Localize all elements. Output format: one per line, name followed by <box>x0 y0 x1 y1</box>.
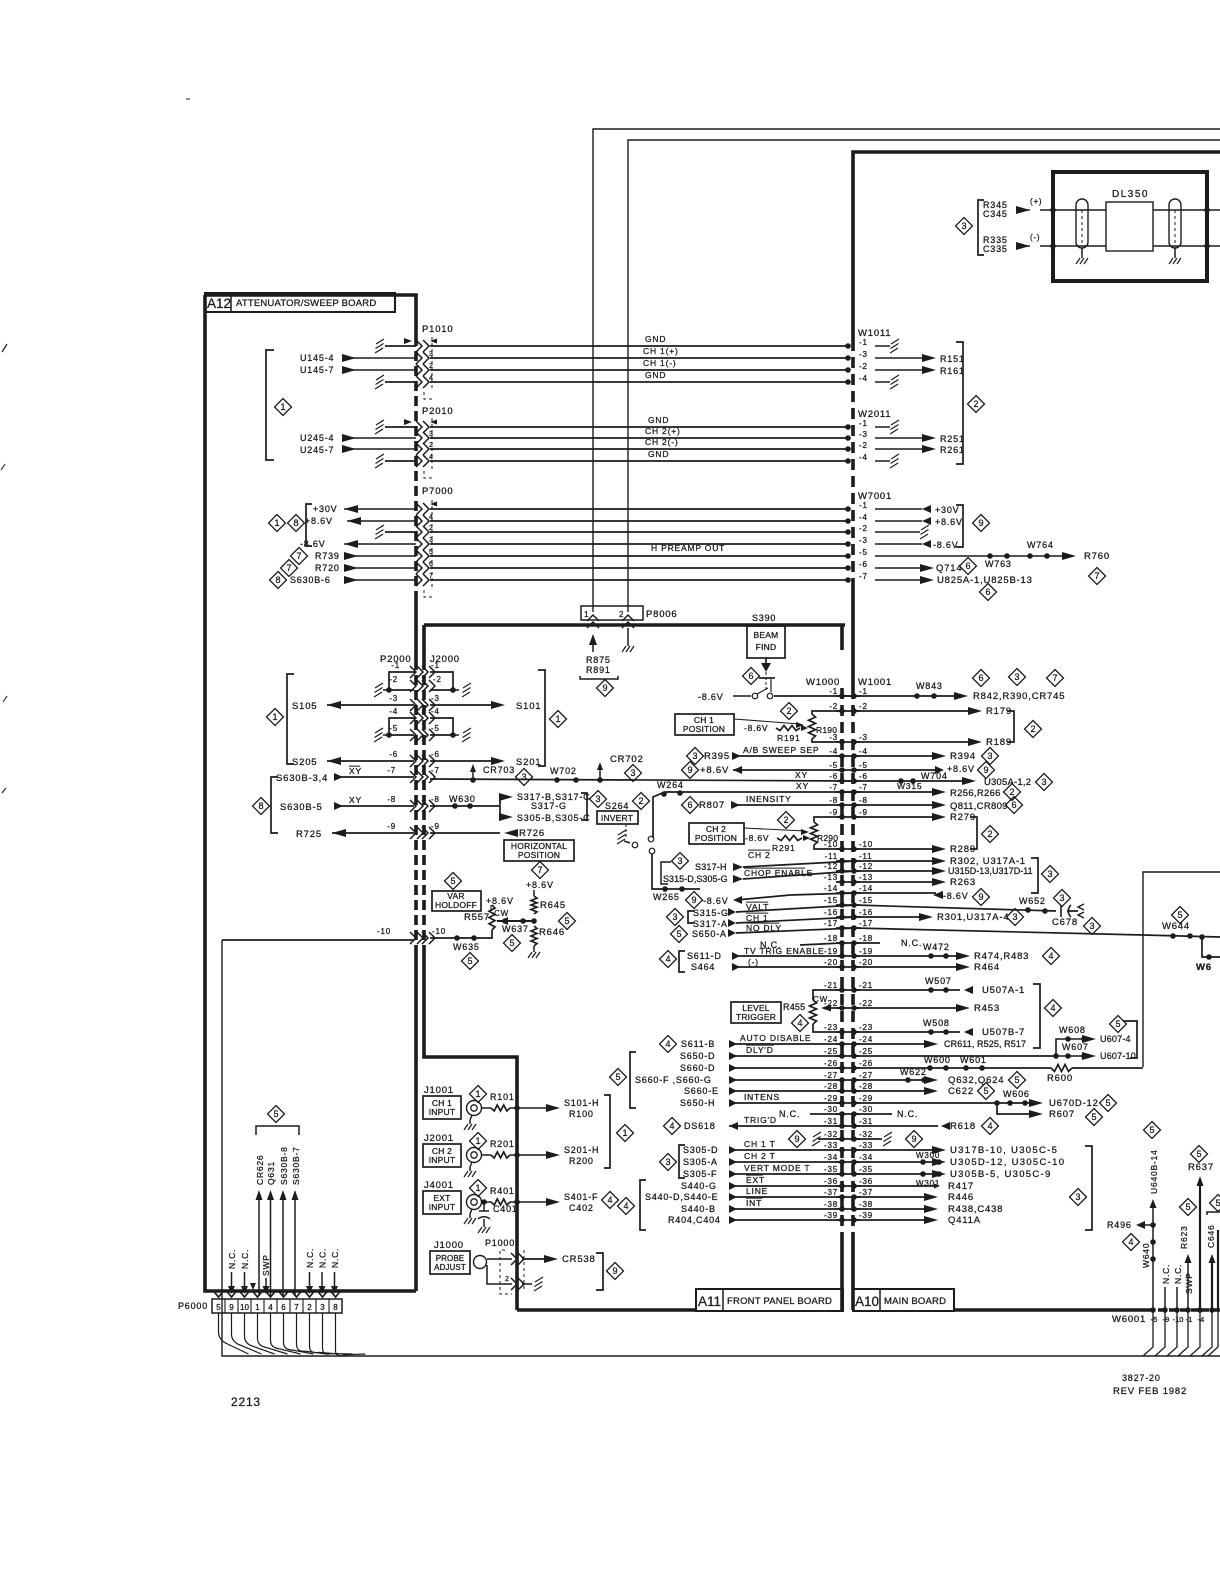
svg-text:S630B-3,4: S630B-3,4 <box>276 773 328 784</box>
wire R807 to bus -8 INTENSITY <box>682 797 699 814</box>
svg-text:CHOP ENABLE: CHOP ENABLE <box>744 868 813 878</box>
wire -8.6V <box>875 543 922 545</box>
svg-text:-11: -11 <box>859 852 872 861</box>
ground bus -32 right <box>854 1138 882 1140</box>
svg-text:3: 3 <box>1089 921 1094 931</box>
svg-text:S660-E: S660-E <box>684 1086 719 1096</box>
svg-text:10: 10 <box>240 1303 249 1312</box>
reference diamond 3 <box>1054 890 1071 907</box>
wire H preamp out to R760 via W763 W764 <box>875 555 1066 557</box>
svg-text:-21: -21 <box>859 981 873 990</box>
svg-text:9: 9 <box>602 683 607 693</box>
A10 bottom edge <box>954 1308 1147 1312</box>
wire +8.6V <box>875 520 922 522</box>
svg-text:R101: R101 <box>490 1092 515 1102</box>
svg-text:+8.6V: +8.6V <box>947 764 975 774</box>
svg-text:-4: -4 <box>859 513 868 522</box>
reference diamond 8 <box>253 798 270 815</box>
svg-text:R190: R190 <box>816 725 837 735</box>
svg-text:W300: W300 <box>916 1151 940 1160</box>
svg-text:R646: R646 <box>539 927 565 938</box>
svg-text:2: 2 <box>1030 724 1035 734</box>
svg-text:DS618: DS618 <box>684 1121 716 1131</box>
bottom border bundle wire <box>222 940 1220 1356</box>
svg-text:+8.6V: +8.6V <box>700 765 729 776</box>
svg-text:U305B-5, U305C-9: U305B-5, U305C-9 <box>950 1169 1052 1180</box>
wire bus -17 long to W644 right board <box>854 928 1143 935</box>
svg-text:-20: -20 <box>859 958 873 967</box>
svg-text:-8: -8 <box>387 795 396 804</box>
svg-text:-8.6V: -8.6V <box>698 692 724 702</box>
right board boundary (A14) <box>1143 872 1220 1067</box>
wire W608 to U607-4 <box>1056 1039 1086 1056</box>
svg-text:XY: XY <box>349 766 362 776</box>
svg-text:ADJUST: ADJUST <box>434 1263 466 1272</box>
svg-text:S315-D,S305-G: S315-D,S305-G <box>663 874 728 884</box>
svg-text:S264: S264 <box>605 801 629 811</box>
svg-text:-19: -19 <box>859 947 873 956</box>
reference diamond 4 <box>602 1192 619 1209</box>
svg-text:5: 5 <box>1215 1198 1220 1208</box>
svg-text:-38: -38 <box>824 1200 838 1209</box>
svg-text:W843: W843 <box>916 681 943 691</box>
svg-text:N.C.: N.C. <box>1173 1264 1183 1284</box>
svg-text:9: 9 <box>983 765 988 775</box>
svg-text:R891: R891 <box>586 665 611 675</box>
svg-text:-5: -5 <box>431 724 440 733</box>
svg-text:CW: CW <box>494 909 509 918</box>
svg-text:S317-H: S317-H <box>695 862 727 872</box>
reference diamond 2 <box>778 812 795 829</box>
svg-text:-10: -10 <box>432 927 446 936</box>
reference diamond 5 <box>1144 1122 1161 1139</box>
wire bus -28 to C622 <box>854 1090 930 1092</box>
svg-text:-8: -8 <box>859 796 868 805</box>
svg-text:N.C.: N.C. <box>897 1109 918 1119</box>
reference diamond 6 <box>973 670 990 687</box>
scan artifact marks <box>2 344 7 352</box>
svg-text:W508: W508 <box>923 1018 950 1028</box>
reference diamond 7 <box>532 862 549 879</box>
wire P1000-1 to CR538 <box>522 1258 550 1260</box>
reference diamond 4 <box>660 951 677 968</box>
svg-text:CH 2 T: CH 2 T <box>744 1151 776 1161</box>
svg-text:-24: -24 <box>859 1035 873 1044</box>
svg-text:S630B-6: S630B-6 <box>290 575 331 585</box>
resistor R600 <box>1051 1065 1072 1072</box>
wire J2000-3 to S101 <box>430 704 497 706</box>
svg-text:4: 4 <box>665 1039 670 1049</box>
svg-text:5: 5 <box>1014 1075 1019 1085</box>
svg-text:3: 3 <box>1041 777 1046 787</box>
svg-text:-17: -17 <box>824 919 838 928</box>
svg-text:-7: -7 <box>859 783 868 792</box>
reference diamond 9 <box>597 680 614 697</box>
bracket S611-D/S464 <box>679 951 685 972</box>
svg-text:P7000: P7000 <box>422 486 453 497</box>
svg-text:R760: R760 <box>1084 551 1110 562</box>
bracket P7000 supplies left <box>306 504 312 546</box>
wire P6000-4 SWP <box>265 1278 267 1290</box>
svg-text:-4: -4 <box>829 747 838 756</box>
svg-text:S630B-7: S630B-7 <box>291 1146 301 1185</box>
wire R496 tap <box>1140 1224 1153 1226</box>
svg-text:J4001: J4001 <box>424 1180 454 1191</box>
svg-text:C335: C335 <box>983 244 1008 254</box>
svg-text:-4: -4 <box>389 707 398 716</box>
svg-text:-18: -18 <box>859 934 873 943</box>
svg-text:-9: -9 <box>859 808 868 817</box>
svg-text:R161: R161 <box>940 366 965 376</box>
wire bus -30 N.C. <box>810 1113 842 1115</box>
svg-text:1: 1 <box>555 714 560 724</box>
bracket S630B group <box>271 777 278 833</box>
svg-text:Q811,CR809: Q811,CR809 <box>950 801 1008 812</box>
svg-text:3: 3 <box>677 856 682 866</box>
svg-text:3: 3 <box>1014 672 1019 682</box>
reference diamond 4 <box>792 1015 809 1032</box>
svg-text:-4: -4 <box>859 747 868 756</box>
wire bus -3 to R189 <box>854 741 976 743</box>
svg-text:4: 4 <box>987 1121 992 1131</box>
reference diamond 5 <box>1110 1016 1127 1033</box>
wire P7000-2 gnd <box>385 531 416 533</box>
svg-text:CR703: CR703 <box>483 765 515 775</box>
reference diamond 8 <box>270 572 287 589</box>
wire W265 from S264 to bus -14 <box>652 854 700 889</box>
svg-text:R739: R739 <box>315 551 340 561</box>
svg-text:U670D-12: U670D-12 <box>1049 1098 1099 1109</box>
svg-text:S440-G: S440-G <box>681 1181 717 1191</box>
svg-text:9: 9 <box>911 1134 916 1144</box>
svg-text:CH 1(-): CH 1(-) <box>643 358 676 368</box>
svg-text:-5: -5 <box>859 761 868 770</box>
svg-text:P6000: P6000 <box>178 1301 208 1311</box>
svg-text:CR611, R525, R517: CR611, R525, R517 <box>944 1039 1026 1049</box>
label CH 2 POSITION <box>689 823 744 844</box>
wire top line 1 to CRT <box>593 129 1220 612</box>
diode branch CR702 <box>597 777 603 783</box>
svg-text:W600: W600 <box>924 1055 951 1065</box>
wire P2010-1 GND <box>385 426 416 428</box>
svg-text:(-): (-) <box>1030 233 1040 242</box>
svg-text:1: 1 <box>255 1303 260 1312</box>
wire W6001-10 N.C. <box>1176 1287 1178 1310</box>
svg-text:W640: W640 <box>1141 1243 1151 1268</box>
svg-text:W607: W607 <box>1062 1042 1089 1052</box>
bracket S317 group <box>581 793 587 820</box>
svg-text:5: 5 <box>1105 1098 1110 1108</box>
svg-text:3827-20: 3827-20 <box>1122 1373 1161 1383</box>
svg-text:S205: S205 <box>292 757 317 768</box>
wiper R455 from bus -22 <box>824 1007 842 1009</box>
svg-text:INPUT: INPUT <box>429 1155 456 1165</box>
svg-text:3: 3 <box>672 912 677 922</box>
wire bus -37 to R446 <box>854 1196 930 1198</box>
svg-text:7: 7 <box>296 551 301 561</box>
bracket S305 group <box>679 1145 685 1178</box>
reference diamond 3 <box>667 909 684 926</box>
wire to R151 <box>875 357 928 359</box>
ground bus -32 left <box>818 1138 842 1140</box>
svg-text:-29: -29 <box>824 1094 838 1103</box>
svg-text:W630: W630 <box>449 794 476 804</box>
svg-text:8: 8 <box>293 518 298 528</box>
svg-text:R251: R251 <box>940 434 965 444</box>
wire R557 to J2000-10 <box>430 930 492 938</box>
svg-text:Q631: Q631 <box>266 1161 276 1185</box>
svg-text:-17: -17 <box>859 919 873 928</box>
wire W6001-4 to R637 <box>1199 1183 1201 1310</box>
wire P6000-1 stub <box>250 1283 256 1290</box>
svg-text:-2: -2 <box>433 675 442 684</box>
svg-text:2: 2 <box>429 442 434 449</box>
svg-text:3: 3 <box>429 537 434 544</box>
svg-text:+30V: +30V <box>935 505 959 515</box>
svg-text:GND: GND <box>645 370 666 380</box>
svg-text:S305-F: S305-F <box>683 1169 717 1179</box>
svg-text:-27: -27 <box>859 1071 873 1080</box>
svg-text:3: 3 <box>692 751 697 761</box>
wire J2000-7 XYbar to bus -6 <box>430 779 856 781</box>
svg-text:-4: -4 <box>431 707 440 716</box>
svg-text:3: 3 <box>961 221 966 231</box>
svg-text:-35: -35 <box>824 1165 838 1174</box>
svg-text:2: 2 <box>505 1276 510 1283</box>
svg-text:R263: R263 <box>950 877 976 888</box>
bracket S101/S201 group <box>538 670 545 766</box>
wire to R251 <box>875 437 928 439</box>
svg-text:1: 1 <box>475 1136 480 1146</box>
reference diamond 1 <box>550 711 567 728</box>
svg-text:W763: W763 <box>985 559 1012 569</box>
svg-text:R401: R401 <box>490 1186 515 1196</box>
resistor R646 <box>531 926 537 946</box>
reference diamond 5 <box>1191 1146 1208 1163</box>
svg-text:A/B SWEEP SEP: A/B SWEEP SEP <box>743 745 819 755</box>
wire top line 2 to CRT <box>628 140 1220 612</box>
svg-text:-26: -26 <box>824 1059 838 1068</box>
svg-text:7: 7 <box>1052 673 1057 683</box>
board label A11 FRONT PANEL BOARD <box>696 1289 843 1311</box>
svg-text:-8: -8 <box>431 795 440 804</box>
svg-text:CH 1(+): CH 1(+) <box>643 346 679 356</box>
svg-text:-1: -1 <box>859 687 868 696</box>
svg-text:7: 7 <box>429 573 434 580</box>
wire P1010-1 GND <box>385 345 416 347</box>
svg-text:-13: -13 <box>824 873 838 882</box>
svg-text:S650-D: S650-D <box>680 1051 715 1061</box>
wire S611-B to bus -24 AUTO DISABLE <box>660 1036 677 1053</box>
node R645/R646 wiper wire <box>497 920 534 922</box>
svg-text:-37: -37 <box>859 1188 873 1197</box>
ground loop P2000-1-2 <box>389 672 416 690</box>
svg-text:9: 9 <box>687 765 692 775</box>
svg-text:-36: -36 <box>824 1177 838 1186</box>
svg-text:TRIG'D: TRIG'D <box>744 1115 777 1125</box>
svg-text:R557: R557 <box>464 912 490 923</box>
svg-text:-4: -4 <box>1198 1315 1205 1324</box>
svg-text:-16: -16 <box>824 908 838 917</box>
svg-text:4: 4 <box>623 1201 628 1211</box>
ground S264 <box>617 839 625 844</box>
svg-text:-25: -25 <box>859 1047 873 1056</box>
svg-text:W635: W635 <box>453 942 480 952</box>
svg-text:R201: R201 <box>490 1139 515 1149</box>
reference diamond 5 <box>445 873 462 890</box>
wire bus -12 to U315D-13,U317D-11 <box>854 870 938 872</box>
svg-text:4: 4 <box>429 454 434 461</box>
svg-text:R464: R464 <box>974 962 1000 973</box>
A12 attenuator/sweep board outline <box>205 295 416 336</box>
reference diamond 3 <box>1009 669 1026 686</box>
wire row -10 to left border <box>222 939 414 941</box>
svg-text:-8.6V: -8.6V <box>703 896 729 906</box>
svg-text:C401: C401 <box>493 1204 518 1214</box>
svg-text:INTENS: INTENS <box>744 1092 780 1102</box>
svg-text:R807: R807 <box>699 800 725 811</box>
svg-text:3: 3 <box>595 794 600 804</box>
svg-text:3: 3 <box>521 772 526 782</box>
svg-text:CH 1 T: CH 1 T <box>744 1139 776 1149</box>
svg-text:INVERT: INVERT <box>601 813 633 823</box>
svg-text:R291: R291 <box>772 843 796 853</box>
wire bus -1 to R842,R390,CR745 via W843 <box>854 695 960 697</box>
svg-text:-4: -4 <box>859 453 868 462</box>
svg-text:S650-H: S650-H <box>680 1098 715 1108</box>
svg-text:9: 9 <box>794 1134 799 1144</box>
svg-text:C678: C678 <box>1052 917 1078 928</box>
reference diamond 5 <box>610 1069 627 1086</box>
svg-text:3: 3 <box>987 751 992 761</box>
svg-text:5: 5 <box>1185 1202 1190 1212</box>
svg-text:S630B-8: S630B-8 <box>279 1146 289 1185</box>
reference diamond 9 <box>686 892 703 909</box>
bracket S315-G/S317-A <box>688 911 694 923</box>
svg-text:R474,R483: R474,R483 <box>974 951 1029 962</box>
svg-text:-1: -1 <box>829 687 838 696</box>
svg-text:-9: -9 <box>431 822 440 831</box>
wire bus -23 to U507B-7 via W508 <box>854 1031 960 1033</box>
svg-text:R256,R266: R256,R266 <box>950 788 1001 799</box>
svg-text:-6: -6 <box>859 560 868 569</box>
svg-text:-3: -3 <box>859 430 868 439</box>
svg-text:W702: W702 <box>550 766 577 776</box>
resistor R645 <box>531 896 537 914</box>
wire W644 branch down <box>1199 934 1205 940</box>
svg-text:5: 5 <box>1091 1112 1096 1122</box>
wire bus -35 to U305B-5,U305C-9 via W301 <box>854 1173 938 1175</box>
A10 main board outline <box>853 152 1220 340</box>
reference diamond 6 <box>960 558 977 575</box>
svg-text:-10: -10 <box>1173 1315 1184 1324</box>
svg-text:-1: -1 <box>859 501 868 510</box>
svg-text:S464: S464 <box>691 962 715 972</box>
svg-text:2: 2 <box>619 610 624 619</box>
svg-text:-8.6V: -8.6V <box>933 540 959 550</box>
svg-text:4: 4 <box>1128 1237 1133 1247</box>
bracket CR626 group <box>256 1126 299 1135</box>
bus pin rows W1000/W1001 <box>836 695 860 697</box>
svg-text:U607-10: U607-10 <box>1100 1051 1136 1061</box>
svg-text:5: 5 <box>1115 1019 1120 1029</box>
ground loop J2000-1-2 <box>430 672 453 690</box>
svg-text:R394: R394 <box>950 751 976 762</box>
wire DS618 to bus -31 TRIG'D <box>664 1118 681 1135</box>
svg-text:6: 6 <box>281 1303 286 1312</box>
svg-text:-2: -2 <box>859 362 868 371</box>
svg-text:A11: A11 <box>698 1294 721 1309</box>
svg-text:5: 5 <box>273 1109 278 1119</box>
reference diamond 5 <box>268 1106 285 1123</box>
reference diamond 3 <box>672 853 689 870</box>
svg-text:S305-B,S305-C: S305-B,S305-C <box>517 813 590 823</box>
wire bus -22 wiper to R453 <box>854 1007 962 1009</box>
svg-text:-1: -1 <box>859 338 868 347</box>
wire to R161 <box>875 369 928 371</box>
svg-text:-3: -3 <box>859 733 868 742</box>
svg-text:2: 2 <box>429 525 434 532</box>
svg-text:R875: R875 <box>586 655 611 665</box>
svg-text:5: 5 <box>467 956 472 966</box>
svg-text:W6001: W6001 <box>1112 1314 1146 1325</box>
svg-text:-25: -25 <box>824 1047 838 1056</box>
diode branch CR703 <box>470 777 476 783</box>
svg-text:8: 8 <box>258 801 263 811</box>
svg-text:H PREAMP OUT: H PREAMP OUT <box>651 543 725 553</box>
reference diamond 4 <box>618 1198 635 1215</box>
svg-text:R618: R618 <box>950 1121 976 1132</box>
reference diamond 7 <box>281 560 298 577</box>
svg-text:-3: -3 <box>859 350 868 359</box>
svg-text:S440-B: S440-B <box>681 1204 716 1214</box>
svg-text:S305-D: S305-D <box>683 1145 718 1155</box>
svg-text:-37: -37 <box>824 1188 838 1197</box>
reference diamond 7 <box>1089 568 1106 585</box>
svg-text:DL350: DL350 <box>1112 189 1149 200</box>
bracket diamond 2 group <box>956 342 963 464</box>
svg-text:N.C.: N.C. <box>318 1248 328 1268</box>
svg-text:P1010: P1010 <box>422 324 453 335</box>
wire J2000-6 to S201 <box>430 760 497 762</box>
wire bus -13 to R263 <box>854 881 938 883</box>
svg-text:U507A-1: U507A-1 <box>982 985 1025 996</box>
wire bus -7 to R256,R266 label W315 <box>854 791 938 793</box>
svg-text:R645: R645 <box>540 900 566 911</box>
svg-text:R842,R390,CR745: R842,R390,CR745 <box>973 691 1065 702</box>
ground P8006-2 <box>627 628 629 642</box>
reference diamond 9 <box>607 1263 624 1280</box>
potentiometer R290 <box>814 817 842 822</box>
svg-text:+8.6V: +8.6V <box>486 896 514 906</box>
wire S630B-8 riser <box>282 1198 284 1296</box>
svg-text:-33: -33 <box>824 1141 838 1150</box>
svg-text:S630B-5: S630B-5 <box>280 802 323 813</box>
svg-text:S660-F ,S660-G: S660-F ,S660-G <box>635 1075 712 1085</box>
reference diamond 3 <box>1070 1189 1087 1206</box>
svg-text:S105: S105 <box>292 701 317 712</box>
reference diamond 9 <box>973 515 990 532</box>
svg-text:U305A-1,2: U305A-1,2 <box>984 777 1031 788</box>
svg-text:4: 4 <box>429 514 434 521</box>
wire bus -9 to R279 <box>854 816 938 818</box>
bracket S105/S205 group <box>287 674 294 764</box>
svg-text:-9: -9 <box>829 808 838 817</box>
svg-text:W608: W608 <box>1059 1025 1086 1035</box>
svg-text:-34: -34 <box>824 1153 838 1162</box>
svg-text:TV TRIG ENABLE: TV TRIG ENABLE <box>744 946 824 956</box>
svg-text:-6: -6 <box>859 772 868 781</box>
